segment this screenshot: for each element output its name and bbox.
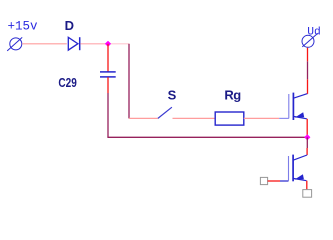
svg-text:Rg: Rg — [224, 88, 241, 103]
terminal Ud — [302, 33, 318, 47]
wire diode to node — [80, 43, 108, 45]
svg-text:S: S — [168, 88, 177, 103]
wire node to capacitor — [107, 44, 109, 72]
gate pin lead Q2 — [280, 180, 289, 182]
wire node down maroon — [306, 137, 308, 148]
collector lead Q2 red — [306, 148, 308, 155]
wire cap down to rail — [107, 93, 109, 137]
bottom rail wire — [107, 136, 307, 138]
capacitor lower lead — [107, 77, 109, 93]
transistor Q1 (top IGBT) — [289, 93, 308, 120]
transistor Q2 (bottom IGBT) — [289, 155, 308, 182]
wire corner to switch — [129, 117, 158, 119]
terminal +15V — [7, 37, 22, 51]
pad square bottom — [303, 190, 312, 198]
resistor Rg — [215, 112, 244, 125]
gate pin lead Q1 — [279, 117, 289, 119]
pad square left — [260, 177, 267, 184]
emitter wire Q1 red — [306, 119, 308, 138]
capacitor C29 — [100, 72, 116, 77]
diode D — [68, 37, 79, 50]
terminal pin lead red — [307, 48, 309, 62]
svg-text:D: D — [65, 18, 74, 33]
svg-text:C29: C29 — [58, 75, 76, 90]
svg-text:+15v: +15v — [8, 19, 39, 33]
switch S blade — [158, 107, 172, 118]
wire down from top rail — [128, 44, 130, 119]
wire maroon mid — [307, 61, 309, 79]
wire node to corner — [108, 43, 129, 45]
wire resistor to gate — [244, 117, 279, 119]
emitter lead Q2 red — [306, 181, 308, 190]
wire switch to resistor — [173, 117, 216, 119]
wire pad to gate Q2 red — [268, 180, 280, 182]
junction node 2 — [304, 134, 310, 140]
junction node 1 — [105, 41, 111, 47]
wire terminal to diode — [22, 43, 67, 45]
svg-text:Ud: Ud — [307, 27, 321, 39]
collector wire Q1 red — [307, 79, 309, 94]
